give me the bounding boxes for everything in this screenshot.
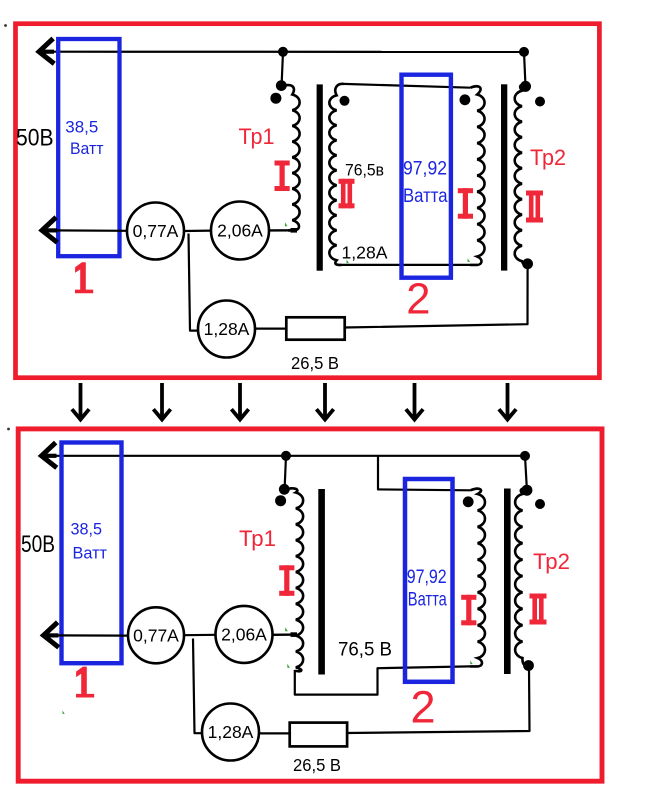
load box 1 (blue rect, bottom diagram) (62, 443, 122, 664)
svg-text:0,77A: 0,77A (133, 221, 179, 241)
winding marker II at Tp2 secondary (bottom) (530, 594, 547, 625)
wire: junction down to Tp1 winding (bottom) (285, 456, 286, 489)
node: Tp1 primary phase dot (top) (270, 93, 281, 104)
wire: 1,28A to resistor (top) (255, 328, 287, 330)
down arrow 6 between diagrams (506, 383, 510, 418)
svg-text:Тр1: Тр1 (239, 124, 275, 149)
down arrow 5 between diagrams (413, 383, 417, 418)
transformer Tp1 core (top) (317, 84, 323, 270)
down arrow 3 between diagrams (238, 383, 242, 418)
winding marker I at Tp2 primary (bottom) (461, 595, 476, 626)
svg-text:Ватт: Ватт (70, 139, 104, 158)
transformer Tp1 core (bottom) (318, 489, 325, 675)
node: Tp1 winding phase dot (bottom) (275, 495, 286, 506)
transformer Tp1 primary winding (top) (282, 85, 300, 230)
arrow: left arrowhead on feeder (bottom) (44, 624, 57, 646)
wire: Tp1 winding bottom around to Tp2 primary bottom (bottom) (295, 666, 470, 694)
down arrow 1 between diagrams (79, 383, 83, 418)
wire: resistor to Tp2 secondary bottom (bottom) (347, 669, 529, 734)
node: Tp2 primary phase dot (bottom) (463, 496, 474, 507)
node: Tp2 secondary top terminal (bottom) (521, 485, 532, 496)
stray speck top-left (4, 24, 7, 27)
wire: 0,77A to 2,06A (top) (184, 230, 212, 233)
wire: top bus drop at x=378 to Tp2 primary top (bottom) (378, 456, 471, 491)
down arrow 2 between diagrams (160, 383, 164, 418)
arrow: left arrowhead on top bus (39, 40, 52, 62)
wire: 1,28A to resistor (bottom) (259, 732, 291, 734)
transformer Tp2 core (bottom) (504, 489, 511, 675)
red frame (top diagram) (16, 24, 600, 378)
node: Tp1 primary top terminal (top) (276, 80, 287, 91)
node: Tp2 secondary bottom terminal (top) (522, 258, 533, 269)
svg-text:1,28A: 1,28A (208, 722, 254, 742)
wire: 50V feeder (bottom, mid-left) (55, 634, 129, 636)
wire: top bus (bottom diagram) (52, 455, 525, 457)
node: Tp2 secondary phase dot (bottom) (535, 499, 545, 509)
label 1 (red numeral, top) (75, 262, 93, 293)
svg-text:0,77A: 0,77A (133, 626, 179, 646)
ammeter 2,06A (bottom) (216, 606, 273, 663)
green tick marks (top) (285, 222, 470, 263)
red frame (bottom diagram) (18, 429, 602, 781)
down arrow 4 between diagrams (323, 383, 327, 418)
wire: 0,77A to 2,06A (bottom) (184, 634, 216, 637)
winding marker I at Tp1 (top) (275, 161, 290, 192)
svg-text:97,92: 97,92 (407, 567, 447, 588)
node: top bus junction over Tp1 (top) (278, 47, 288, 57)
wire: top bus (top diagram) (50, 51, 524, 53)
svg-text:26,5 В: 26,5 В (293, 755, 341, 775)
winding marker II at Tp1 secondary (top) (339, 179, 355, 209)
wire: 50V feeder (top, mid-left) (52, 229, 128, 232)
node: Tp1 secondary phase dot (top) (340, 96, 350, 106)
wire: branch 0,77A down to 1,28A (top) (189, 234, 199, 331)
transformer Tp2 secondary winding (bottom) (515, 489, 528, 666)
winding marker I at Tp1 (bottom) (279, 565, 294, 596)
label 1 (red numeral, bottom) (76, 667, 94, 698)
svg-text:1,28A: 1,28A (342, 243, 388, 263)
wire: resistor to Tp2 secondary bottom (top) (345, 265, 528, 328)
transformer Tp2 core (top) (501, 84, 507, 270)
stray speck left of bottom frame (7, 428, 10, 431)
arrow: left arrowhead on feeder (top) (42, 219, 55, 241)
node: top bus junction over Tp1 (bottom) (281, 451, 291, 461)
transformer Tp2 primary winding (top) (470, 86, 485, 265)
node: top bus right junction (bottom) (520, 451, 530, 461)
svg-text:Ватта: Ватта (403, 186, 448, 207)
load box 2 (blue rect, top diagram) (402, 75, 451, 278)
svg-text:Тр2: Тр2 (533, 549, 570, 574)
transformer Tp2 secondary winding (top) (515, 85, 528, 264)
transformer Tp1 secondary winding + link to Tp2 primary top (top) (329, 84, 343, 265)
winding marker I at Tp2 primary (top) (458, 188, 473, 219)
svg-text:1,28A: 1,28A (204, 319, 250, 339)
wire: top bus right junction down to Tp2 secondary (bottom) (525, 456, 527, 488)
green tick marks (bottom) (62, 627, 472, 714)
svg-text:Тр1: Тр1 (239, 526, 276, 551)
node: Tp2 primary phase dot (top) (460, 94, 471, 105)
ammeter 2,06A (top) (211, 202, 269, 260)
wire: top bus right junction down to Tp2 secondary (top) (524, 52, 525, 84)
svg-text:76,5 В: 76,5 В (338, 639, 392, 661)
node: Tp2 secondary bottom terminal (bottom) (523, 660, 534, 671)
wire: Tp1 secondary top to Tp2 primary top (top) (343, 84, 471, 88)
svg-text:26,5 В: 26,5 В (291, 353, 339, 373)
ammeter 1,28A (bottom) (202, 704, 259, 761)
svg-text:Тр2: Тр2 (530, 145, 566, 170)
svg-text:2: 2 (410, 682, 435, 733)
svg-text:2,06A: 2,06A (217, 221, 263, 241)
ammeter 0,77A (bottom) (128, 607, 184, 663)
ammeter 0,77A (top) (127, 203, 184, 260)
wire: 2,06A to Tp1 primary (top) (269, 229, 297, 231)
node: Tp2 secondary phase dot (top) (535, 97, 545, 107)
svg-text:Ватта: Ватта (408, 590, 447, 611)
wire: Tp1 secondary bottom to Tp2 primary bottom (top) (341, 264, 471, 266)
transformer Tp1 tapped winding (bottom) (285, 488, 304, 671)
wire: junction down to Tp1 primary (top) (282, 52, 283, 85)
winding marker II at Tp2 secondary (top) (526, 191, 543, 223)
arrow: left arrowhead on top bus (bottom) (42, 444, 55, 466)
node: Tp1 winding top terminal (bottom) (279, 484, 290, 495)
node: top bus right junction (top) (519, 47, 529, 57)
svg-text:76,5в: 76,5в (345, 162, 384, 180)
svg-text:38,5: 38,5 (65, 118, 98, 137)
resistor 26,5 В (top) (286, 317, 344, 339)
svg-text:Ватт: Ватт (73, 544, 108, 563)
svg-text:2: 2 (406, 275, 430, 323)
resistor 26,5 В (bottom) (290, 723, 347, 747)
svg-text:2,06A: 2,06A (221, 625, 267, 645)
node: Tp2 secondary top terminal (top) (520, 81, 531, 92)
svg-text:50В: 50В (16, 125, 54, 152)
svg-text:97,92: 97,92 (403, 159, 447, 180)
svg-text:50В: 50В (21, 531, 55, 558)
wire: branch 0,77A down to 1,28A (bottom) (193, 639, 203, 734)
load box 1 (blue rect, top diagram) (58, 39, 119, 256)
transformer Tp2 primary winding (bottom) (470, 489, 485, 667)
ammeter 1,28A (top) (198, 301, 255, 358)
load box 2 (blue rect, bottom diagram) (405, 479, 453, 682)
wire: 2,06A to Tp1 winding tap (bottom) (273, 633, 298, 636)
svg-text:38,5: 38,5 (71, 519, 103, 538)
